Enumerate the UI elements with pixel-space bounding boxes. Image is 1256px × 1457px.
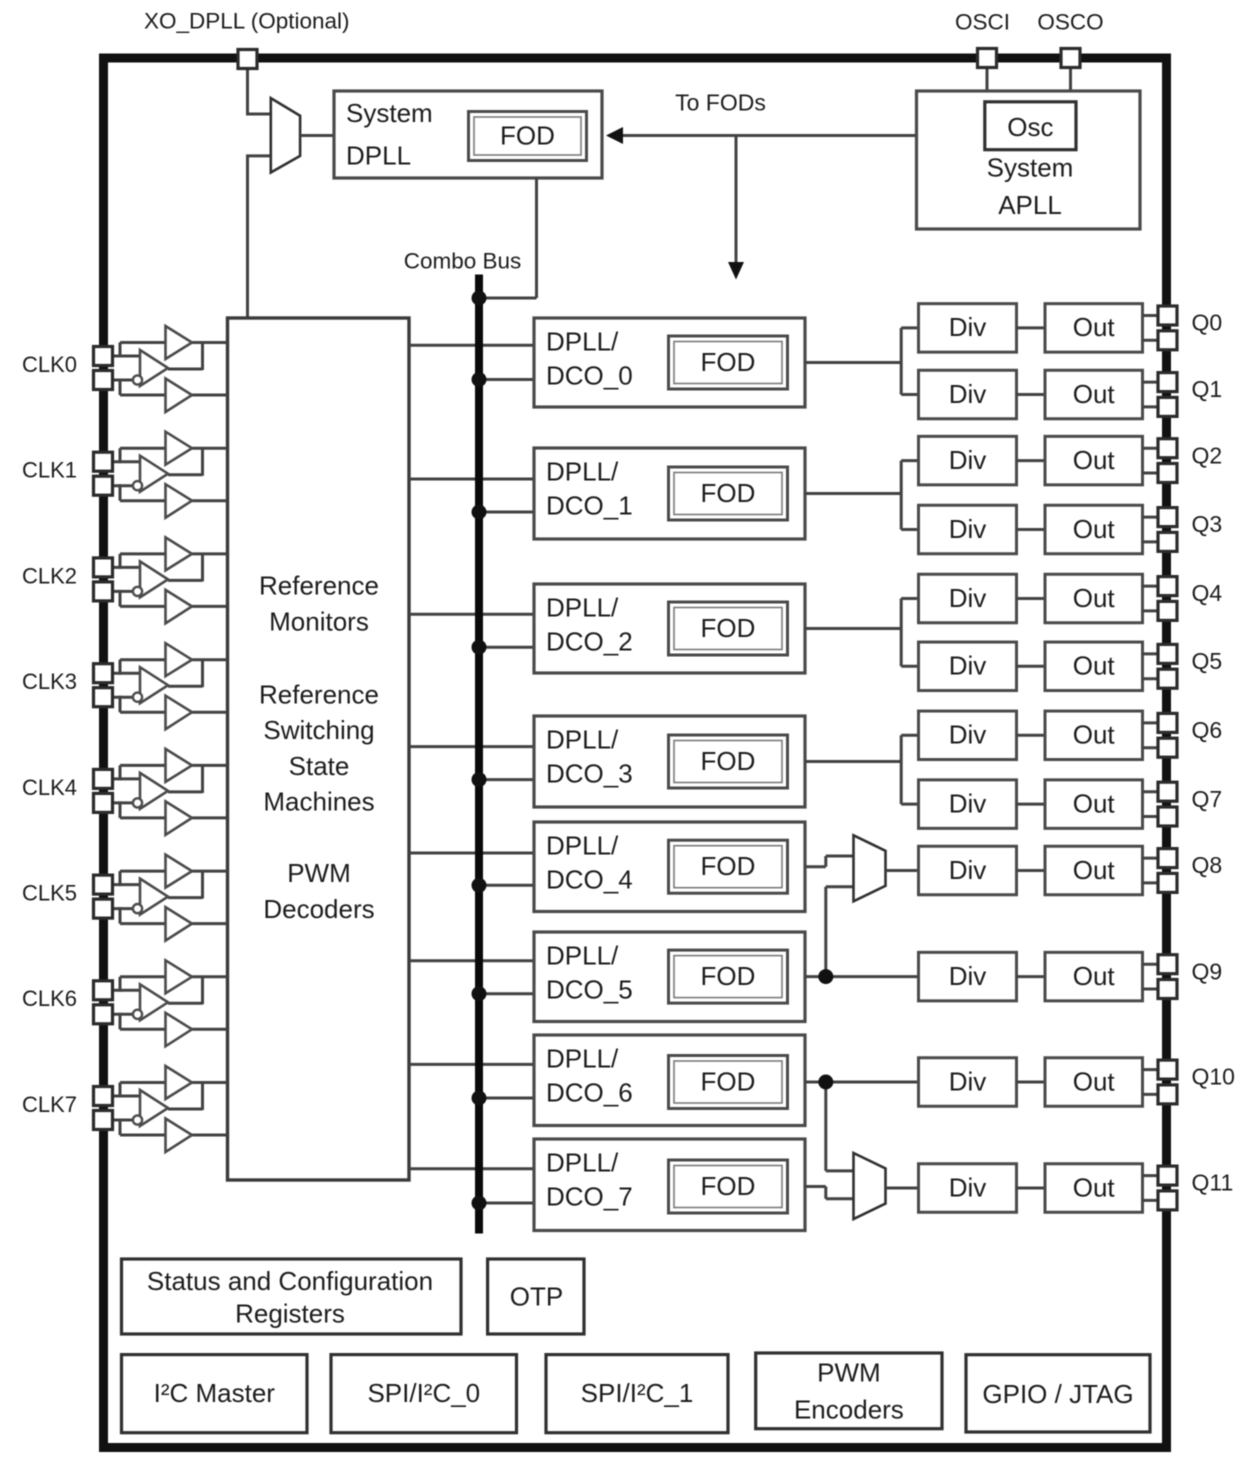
svg-text:GPIO / JTAG: GPIO / JTAG [982,1379,1133,1409]
block DPLL/DCO_3 [534,716,805,807]
FOD inside DPLL/DCO_2 [669,602,788,655]
wires CLK0 input network [110,343,228,396]
wire Reference Monitors to DPLL/DCO_1 [409,478,534,481]
wires Out Q5 to pins [1143,654,1160,679]
wire Div to Out Q8 [1017,869,1046,872]
svg-text:Q10: Q10 [1192,1064,1235,1090]
wires Out Q10 to pins [1143,1070,1160,1095]
output buffer Out Q10 [1045,1058,1143,1107]
wire Div to Out Q2 [1017,459,1046,462]
pin CLK6 P [94,981,113,1000]
label CLK3 [22,669,77,694]
svg-text:Out: Out [1073,583,1116,613]
pin Q1 P [1158,373,1177,392]
pin CLK3 P [94,664,113,683]
junction combo bus / system FOD [472,291,487,306]
svg-text:Out: Out [1073,1066,1116,1096]
pin Q0 P [1158,306,1177,325]
svg-text:Q4: Q4 [1192,580,1223,606]
svg-text:PWM: PWM [287,858,351,888]
block DPLL/DCO_7 [534,1139,805,1231]
pin Q9 P [1158,955,1177,974]
svg-text:Out: Out [1073,514,1116,544]
svg-text:Out: Out [1073,961,1116,991]
block DPLL/DCO_6 [534,1035,805,1126]
junction combo bus / DCO_3 [472,772,487,787]
buffer CLK3 top [166,643,193,676]
wire Reference Monitors to DPLL/DCO_4 [409,852,534,855]
buffer CLK1 top [166,432,193,465]
output buffer Out Q11 [1045,1164,1143,1213]
junction combo bus / DCO_6 [472,1091,487,1106]
pin CLK4 P [94,769,113,788]
buffer CLK1 bottom [166,484,193,518]
wires Out Q8 to pins [1143,858,1160,883]
block SPI/I2C_1 [546,1355,728,1433]
wire mux M3 to Q11 divider [886,1187,919,1190]
divider Div Q9 [919,952,1017,1001]
wires Out Q3 to pins [1143,517,1160,542]
output buffer Out Q0 [1045,304,1143,353]
wire DCO_3 output to divider pair Q6/Q7 [805,735,919,804]
buffer CLK7 middle (differential) [140,1090,168,1126]
wire Div to Out Q10 [1017,1081,1046,1084]
svg-text:SPI/I²C_0: SPI/I²C_0 [367,1378,480,1408]
label Combo Bus [404,249,522,274]
inversion bubble CLK2 [133,587,142,596]
pin CLK7 P [94,1087,113,1106]
junction DCO_5 output tap [818,969,833,984]
pin Q11 P [1158,1166,1177,1185]
pin CLK0 P [94,347,113,366]
divider Div Q0 [919,304,1017,353]
wire Reference Monitors to DPLL/DCO_7 [409,1167,534,1170]
wire DCO_5 output to Q9 divider [805,975,919,978]
wire combo bus to DPLL/DCO_0 [479,378,534,381]
pin Q6 P [1158,713,1177,732]
pin Q4 N [1158,601,1177,620]
wire Div to Out Q1 [1017,393,1046,396]
pin CLK3 N [94,688,113,707]
wire combo bus to DPLL/DCO_3 [479,778,534,781]
label Q6 [1192,717,1223,743]
wire Div to Out Q5 [1017,665,1046,668]
output buffer Out Q2 [1045,436,1143,485]
svg-text:State: State [289,751,350,781]
pin Q3 P [1158,508,1177,527]
svg-text:Div: Div [949,312,987,342]
svg-text:CLK3: CLK3 [22,669,77,694]
pin CLK2 N [94,582,113,601]
arrowhead down toward FODs [728,262,744,280]
inversion bubble CLK6 [133,1010,142,1019]
label Q3 [1192,511,1223,537]
junction combo bus / DCO_4 [472,878,487,893]
buffer CLK0 top [166,326,193,359]
combo bus trunk [475,275,483,1234]
FOD inside DPLL/DCO_6 [669,1056,788,1109]
buffer CLK0 bottom [166,379,193,413]
junction combo bus / DCO_1 [472,505,487,520]
wire Div to Out Q6 [1017,734,1046,737]
wire DCO_2 output to divider pair Q4/Q5 [805,599,919,667]
pin CLK5 P [94,875,113,894]
wire System DPLL FOD to combo bus [476,177,537,298]
svg-text:Osc: Osc [1007,112,1053,142]
svg-text:DPLL: DPLL [346,140,411,170]
svg-text:Switching: Switching [263,715,374,745]
junction combo bus / DCO_0 [472,372,487,387]
svg-text:Out: Out [1073,720,1116,750]
block OTP [488,1259,584,1334]
pin Q8 N [1158,873,1177,892]
wires CLK1 input network [110,448,228,501]
svg-text:DCO_2: DCO_2 [546,626,633,656]
inversion bubble CLK4 [133,798,142,807]
wire Reference Monitors to DPLL/DCO_3 [409,745,534,748]
wire Div to Out Q4 [1017,597,1046,600]
pin CLK4 N [94,793,113,812]
output buffer Out Q1 [1045,370,1143,419]
inversion bubble CLK1 [133,481,142,490]
wires CLK7 input network [110,1083,228,1136]
inversion bubble CLK7 [133,1115,142,1124]
block SPI/I2C_0 [331,1355,517,1433]
wire DCO_1 output to divider pair Q2/Q3 [805,461,919,530]
svg-text:DPLL/: DPLL/ [546,940,619,970]
buffer CLK1 middle (differential) [140,456,168,492]
svg-text:DCO_1: DCO_1 [546,490,633,520]
label Q8 [1192,852,1223,878]
junction DCO_6 output tap [818,1075,833,1090]
buffer CLK0 middle (differential) [140,350,168,386]
label Q5 [1192,648,1223,674]
buffer CLK5 top [166,855,193,888]
svg-text:DCO_7: DCO_7 [546,1181,633,1211]
svg-text:System: System [346,98,433,128]
wire OSCI pin to System APLL [986,66,989,92]
wires CLK5 input network [110,871,228,924]
svg-text:FOD: FOD [701,347,756,377]
inversion bubble CLK3 [133,693,142,702]
svg-text:Out: Out [1073,855,1116,885]
pin Q7 N [1158,807,1177,826]
divider Div Q2 [919,436,1017,485]
inversion bubble CLK5 [133,904,142,913]
svg-text:Q0: Q0 [1192,310,1223,336]
wire combo bus to DPLL/DCO_4 [479,884,534,887]
inversion bubble CLK0 [133,375,142,384]
buffer CLK4 middle (differential) [140,773,168,809]
wires CLK6 input network [110,977,228,1030]
svg-text:DPLL/: DPLL/ [546,830,619,860]
wire DCO_6 tap to mux M3 [826,1082,854,1171]
wire Reference Monitors to DPLL/DCO_2 [409,613,534,616]
label CLK1 [22,458,77,483]
wire combo bus to DPLL/DCO_7 [479,1202,534,1205]
svg-text:Reference: Reference [259,570,379,600]
svg-text:DCO_5: DCO_5 [546,974,633,1004]
buffer CLK3 middle (differential) [140,667,168,703]
svg-text:Q2: Q2 [1192,442,1223,468]
block Reference Monitors / Switching / PWM Decoders [228,318,410,1180]
junction combo bus / DCO_7 [472,1196,487,1211]
svg-text:Div: Div [949,583,987,613]
svg-text:Decoders: Decoders [263,894,374,924]
svg-text:Out: Out [1073,788,1116,818]
FOD inside DPLL/DCO_5 [669,950,788,1003]
wires CLK3 input network [110,660,228,713]
svg-text:FOD: FOD [701,478,756,508]
block DPLL/DCO_5 [534,932,805,1022]
wires Out Q9 to pins [1143,964,1160,989]
pin Q10 N [1158,1085,1177,1104]
svg-text:I²C Master: I²C Master [154,1378,276,1408]
buffer CLK6 middle (differential) [140,984,168,1020]
svg-text:FOD: FOD [701,613,756,643]
svg-text:DCO_6: DCO_6 [546,1077,633,1107]
svg-text:To FODs: To FODs [675,90,766,116]
divider Div Q1 [919,370,1017,419]
svg-text:FOD: FOD [701,851,756,881]
label Q0 [1192,310,1223,336]
buffer CLK6 bottom [166,1013,193,1047]
buffer CLK4 top [166,749,193,782]
svg-text:Out: Out [1073,312,1116,342]
wires Out Q2 to pins [1143,448,1160,473]
svg-text:CLK5: CLK5 [22,880,77,905]
svg-text:DCO_4: DCO_4 [546,864,633,894]
wires Out Q0 to pins [1143,316,1160,341]
svg-text:Div: Div [949,788,987,818]
wires Out Q11 to pins [1143,1176,1160,1201]
FOD inside DPLL/DCO_1 [669,467,788,520]
wire Div to Out Q0 [1017,326,1046,329]
svg-text:Q1: Q1 [1192,376,1223,402]
divider Div Q3 [919,505,1017,554]
buffer CLK5 middle (differential) [140,879,168,915]
output buffer Out Q9 [1045,952,1143,1001]
wire combo bus to DPLL/DCO_2 [479,646,534,649]
svg-text:OSCI: OSCI [955,10,1010,35]
label Q11 [1192,1170,1234,1196]
wires Out Q7 to pins [1143,792,1160,817]
block DPLL/DCO_1 [534,448,805,539]
svg-text:OSCO: OSCO [1037,10,1103,35]
wire mux M1 output to System DPLL [300,134,334,137]
label Q4 [1192,580,1223,606]
label Q2 [1192,442,1223,468]
svg-text:Monitors: Monitors [269,606,369,636]
pin CLK0 N [94,371,113,390]
buffer CLK4 bottom [166,801,193,835]
block DPLL/DCO_4 [534,822,805,912]
wire Div to Out Q7 [1017,803,1046,806]
wire OSCO pin to System APLL [1069,66,1072,92]
svg-text:DPLL/: DPLL/ [546,1043,619,1073]
svg-text:DPLL/: DPLL/ [546,1147,619,1177]
block DPLL/DCO_2 [534,584,805,673]
svg-text:Q11: Q11 [1192,1170,1234,1196]
label CLK5 [22,880,77,905]
wires Out Q6 to pins [1143,723,1160,748]
buffer CLK6 top [166,960,193,993]
wire DCO_7 output to mux M3 [805,1187,854,1199]
label XO_DPLL (Optional) [144,9,350,34]
svg-text:FOD: FOD [701,1171,756,1201]
svg-text:CLK0: CLK0 [22,352,77,377]
wire Div to Out Q3 [1017,528,1046,531]
block DPLL/DCO_0 [534,318,805,407]
divider Div Q8 [919,846,1017,895]
wire Div to Out Q11 [1017,1187,1046,1190]
svg-text:Q5: Q5 [1192,648,1223,674]
label To FODs [675,90,766,116]
divider Div Q6 [919,711,1017,760]
buffer CLK2 middle (differential) [140,561,168,597]
svg-text:Div: Div [949,514,987,544]
block System DPLL [334,91,602,178]
pin CLK1 P [94,452,113,471]
svg-text:FOD: FOD [500,120,555,150]
svg-text:Q3: Q3 [1192,511,1223,537]
pin Q2 N [1158,464,1177,483]
pin CLK2 P [94,558,113,577]
wire System APLL to FODs [621,134,917,137]
wire combo bus to DPLL/DCO_1 [479,511,534,514]
mux M1 (System DPLL input select) [271,98,300,172]
output buffer Out Q7 [1045,780,1143,829]
svg-text:APLL: APLL [998,190,1062,220]
svg-text:Div: Div [949,1066,987,1096]
FOD inside DPLL/DCO_7 [669,1160,788,1213]
wire branch down to combo bus [735,136,738,265]
block GPIO / JTAG [966,1355,1150,1432]
pin Q3 N [1158,532,1177,551]
svg-text:DCO_0: DCO_0 [546,360,633,390]
wire mux M2 to Q8 divider [886,869,919,872]
svg-text:Q6: Q6 [1192,717,1223,743]
svg-text:DCO_3: DCO_3 [546,758,633,788]
wire DCO_6 output to Q10 divider [805,1081,919,1084]
junction combo bus / DCO_5 [472,986,487,1001]
svg-text:PWM: PWM [817,1357,881,1387]
svg-text:FOD: FOD [701,961,756,991]
svg-text:Out: Out [1073,445,1116,475]
block System APLL [917,91,1141,229]
svg-text:Div: Div [949,379,987,409]
divider Div Q10 [919,1058,1017,1107]
pin Q7 P [1158,782,1177,801]
wires Out Q4 to pins [1143,586,1160,611]
svg-text:CLK6: CLK6 [22,986,77,1011]
buffer CLK5 bottom [166,907,193,941]
output buffer Out Q6 [1045,711,1143,760]
svg-text:Div: Div [949,961,987,991]
buffer CLK7 bottom [166,1119,193,1153]
label CLK4 [22,775,77,800]
svg-text:Encoders: Encoders [794,1394,904,1424]
label CLK7 [22,1092,77,1117]
svg-text:XO_DPLL (Optional): XO_DPLL (Optional) [144,9,350,34]
svg-text:DPLL/: DPLL/ [546,592,619,622]
label Q9 [1192,958,1223,984]
label CLK2 [22,563,77,588]
pin Q5 N [1158,669,1177,688]
svg-text:Out: Out [1073,1172,1116,1202]
pin CLK7 N [94,1111,113,1130]
svg-text:DPLL/: DPLL/ [546,326,619,356]
svg-text:Machines: Machines [263,786,374,816]
mux M2 (Q8 select) [854,835,886,901]
svg-text:Reference: Reference [259,679,379,709]
output buffer Out Q8 [1045,846,1143,895]
output buffer Out Q4 [1045,574,1143,623]
divider Div Q5 [919,642,1017,691]
pin Q4 P [1158,577,1177,596]
pin Q2 P [1158,439,1177,458]
svg-text:CLK4: CLK4 [22,775,77,800]
svg-text:Combo Bus: Combo Bus [404,249,522,274]
svg-text:Out: Out [1073,379,1116,409]
pin OSCO [1061,49,1080,68]
label Q10 [1192,1064,1235,1090]
svg-text:Q8: Q8 [1192,852,1223,878]
pin CLK5 N [94,899,113,918]
wire DCO_5 tap to mux M2 [826,887,854,977]
svg-text:Div: Div [949,651,987,681]
pin Q9 N [1158,980,1177,999]
svg-text:Div: Div [949,720,987,750]
pin OSCI [978,49,997,68]
wire Reference Monitors to DPLL/DCO_0 [409,344,534,347]
pin Q1 N [1158,397,1177,416]
pin XO_DPLL [238,50,257,69]
wire combo bus to DPLL/DCO_6 [479,1097,534,1100]
divider Div Q11 [919,1164,1017,1213]
pin CLK1 N [94,476,113,495]
wire XO_DPLL pin to mux input 1 [246,66,271,114]
label CLK6 [22,986,77,1011]
block PWM Encoders [756,1353,942,1429]
label CLK0 [22,352,77,377]
svg-text:CLK1: CLK1 [22,458,77,483]
svg-text:FOD: FOD [701,1066,756,1096]
junction combo bus / DCO_2 [472,640,487,655]
wires CLK4 input network [110,765,228,818]
pin Q0 N [1158,331,1177,350]
svg-text:Div: Div [949,855,987,885]
buffer CLK3 bottom [166,696,193,730]
label Q1 [1192,376,1223,402]
wire combo bus to DPLL/DCO_5 [479,992,534,995]
svg-text:Div: Div [949,1172,987,1202]
buffer CLK2 bottom [166,590,193,624]
pin Q10 P [1158,1060,1177,1079]
wire Reference Monitors to DPLL/DCO_5 [409,959,534,962]
svg-text:CLK2: CLK2 [22,563,77,588]
svg-text:Out: Out [1073,651,1116,681]
pin Q8 P [1158,849,1177,868]
svg-text:OTP: OTP [510,1281,563,1311]
block I2C Master [122,1355,308,1433]
wire Div to Out Q9 [1017,975,1046,978]
divider Div Q7 [919,780,1017,829]
svg-text:FOD: FOD [701,746,756,776]
svg-text:CLK7: CLK7 [22,1092,77,1117]
svg-text:Q9: Q9 [1192,958,1223,984]
svg-text:Status and Configuration: Status and Configuration [147,1266,433,1296]
